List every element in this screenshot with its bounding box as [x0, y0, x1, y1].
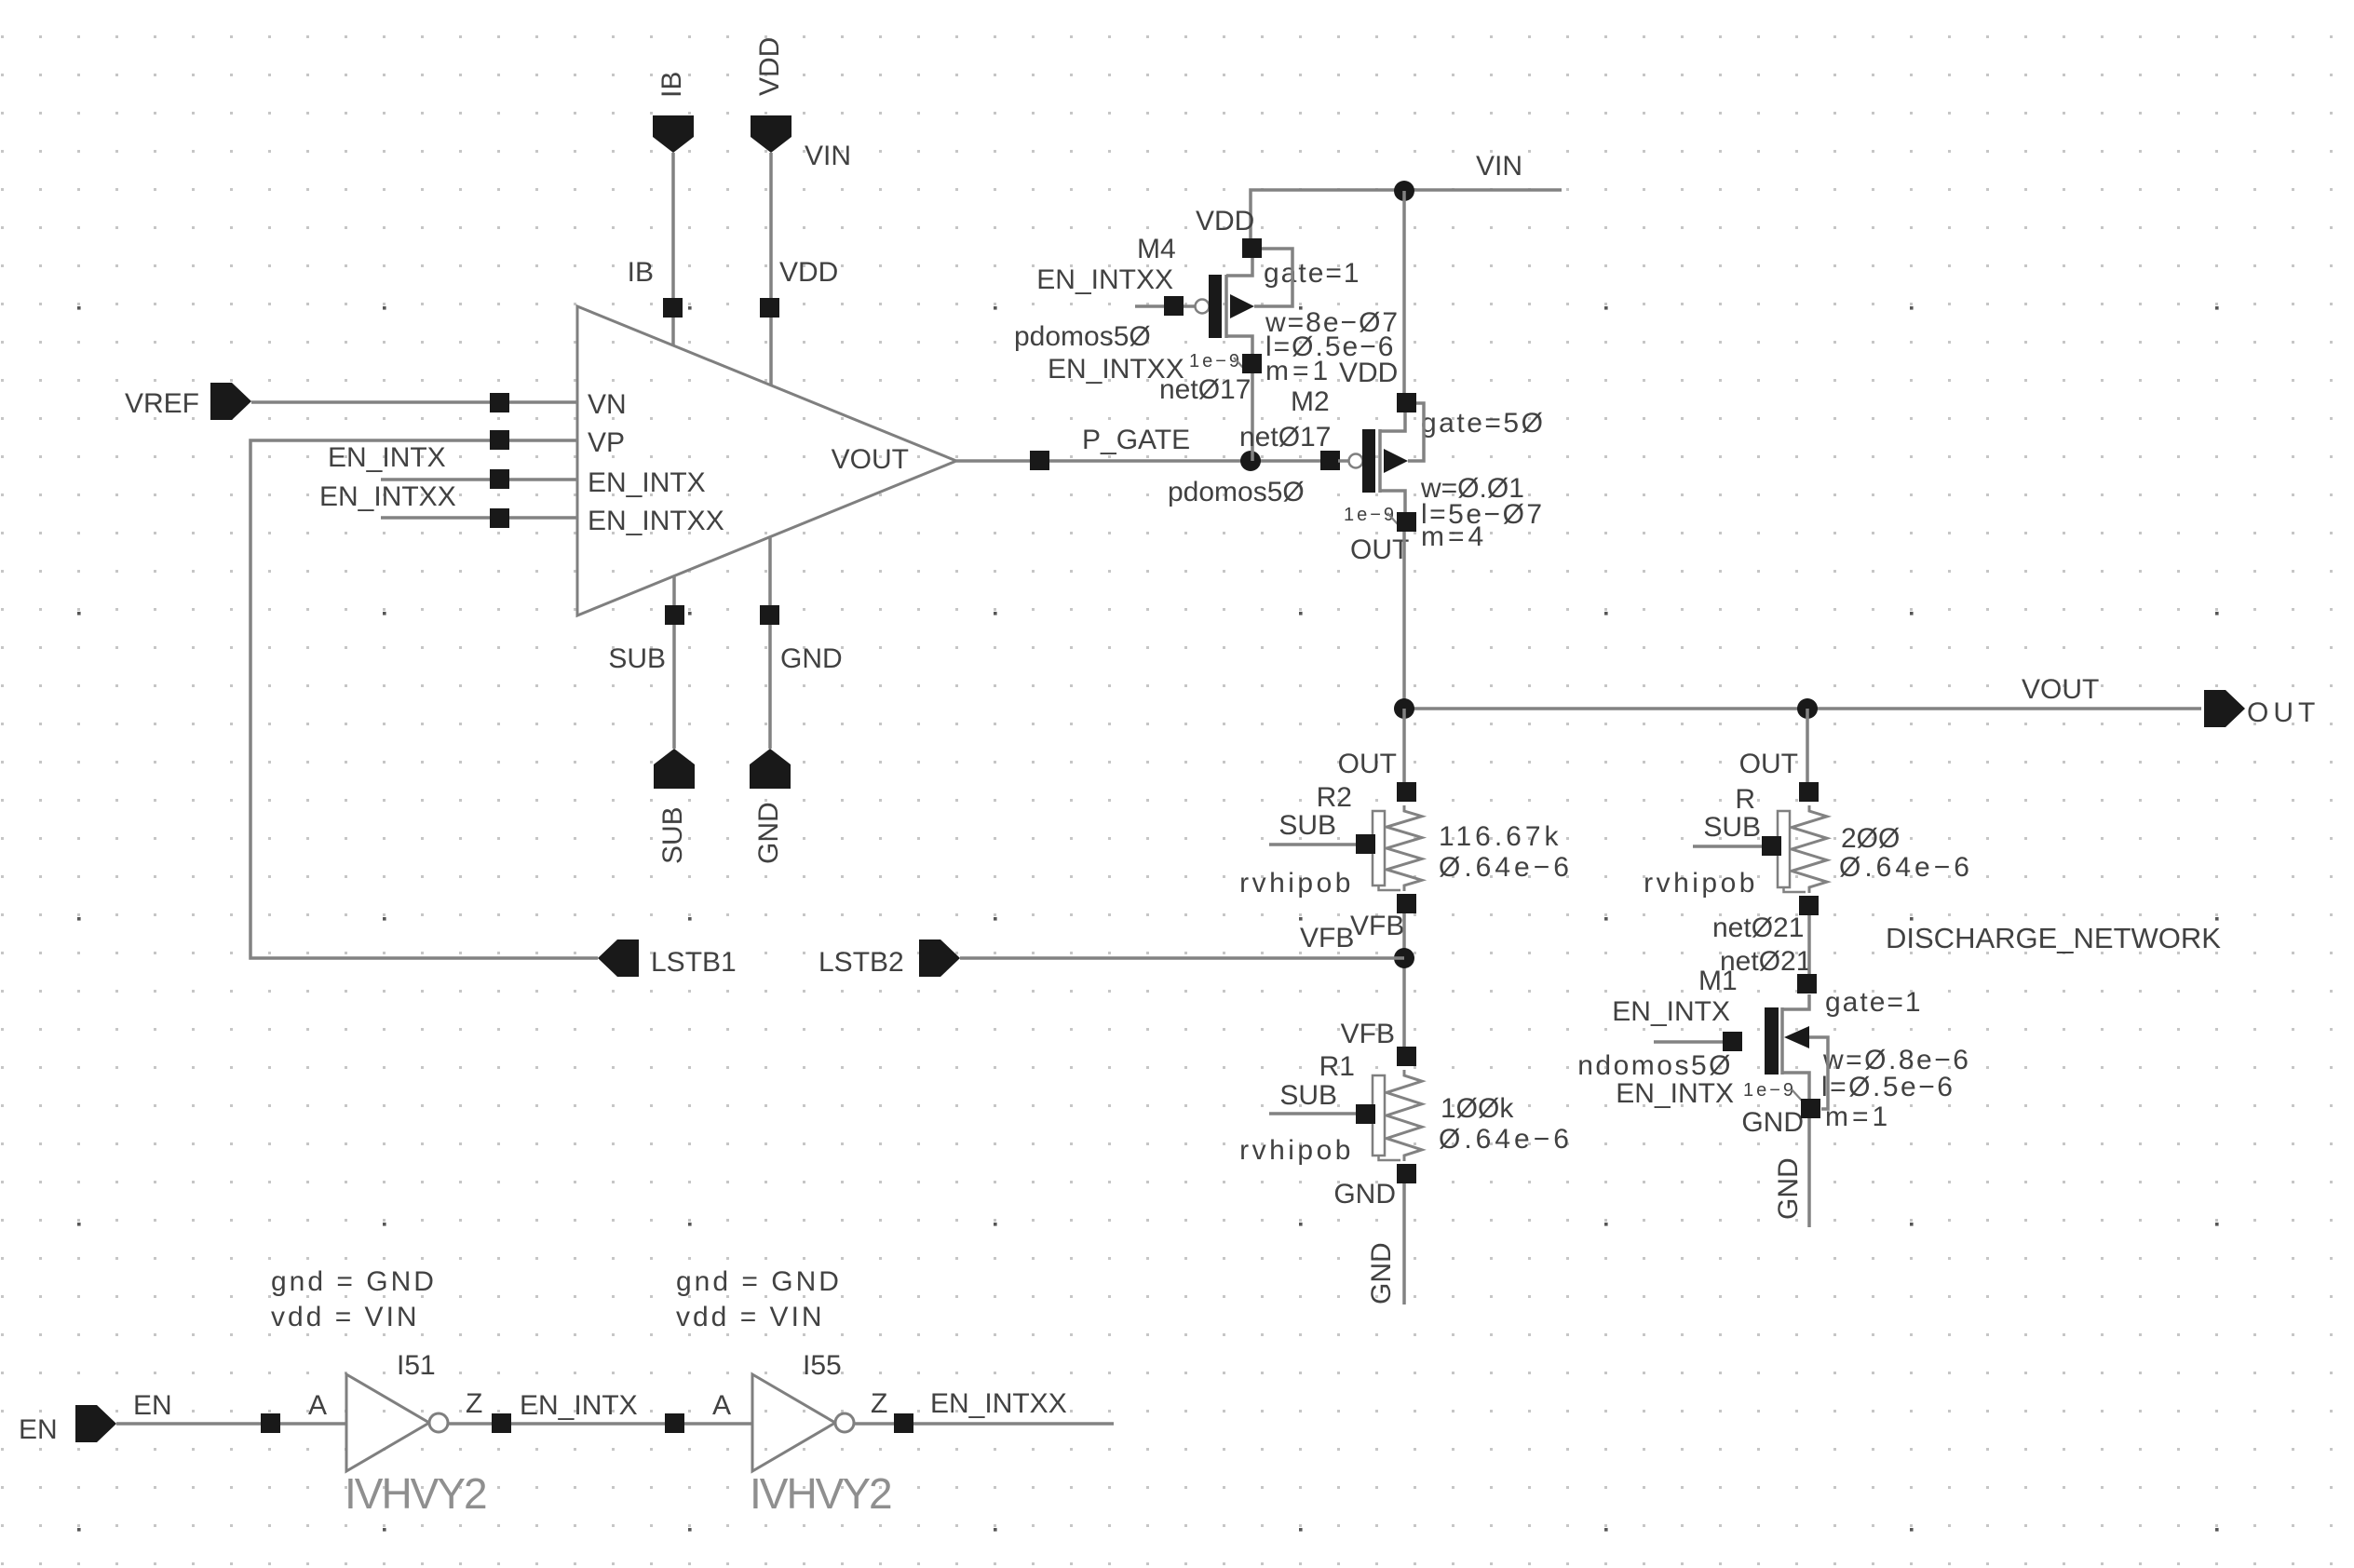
svg-text:SUB: SUB	[1703, 812, 1761, 843]
svg-text:EN_INTX: EN_INTX	[328, 442, 446, 473]
wire VIN horizontal	[1251, 190, 1562, 240]
svg-text:VDD: VDD	[1196, 206, 1254, 237]
wire R1 SUB stub	[1269, 1112, 1359, 1115]
svg-text:EN_INTX: EN_INTX	[520, 1390, 638, 1421]
svg-text:EN_INTX: EN_INTX	[1616, 1078, 1734, 1109]
wire OUT to R2	[1402, 709, 1406, 784]
svg-text:IB: IB	[656, 72, 687, 98]
wire IB	[671, 153, 675, 345]
svg-text:GND: GND	[1773, 1157, 1804, 1220]
svg-text:116.67k: 116.67k	[1439, 821, 1563, 852]
pin square M1 gate	[1723, 1032, 1742, 1051]
svg-text:DISCHARGE_NETWORK: DISCHARGE_NETWORK	[1886, 922, 2221, 954]
pin square SUB	[665, 605, 684, 625]
inverter I55	[752, 1374, 854, 1471]
pin square I55 A	[665, 1413, 684, 1433]
svg-text:EN_INTXX: EN_INTXX	[1036, 264, 1173, 295]
svg-text:IVHVY2: IVHVY2	[750, 1469, 891, 1518]
svg-text:gate=5Ø: gate=5Ø	[1421, 408, 1545, 439]
wire P_GATE	[956, 459, 1321, 463]
svg-text:GND: GND	[1366, 1242, 1397, 1304]
pin square M2 source VDD	[1397, 393, 1416, 412]
svg-text:netØ17: netØ17	[1159, 374, 1251, 405]
transistor M2 labels	[1168, 358, 1545, 565]
op-amp U0	[577, 306, 956, 615]
svg-text:M4: M4	[1137, 234, 1176, 264]
svg-text:m=1: m=1	[1265, 356, 1332, 386]
pin square I51 A	[261, 1413, 280, 1433]
transistor M4	[1196, 249, 1293, 369]
svg-text:OUT: OUT	[1350, 534, 1409, 565]
pin square I55 Z	[894, 1413, 913, 1433]
svg-text:VDD: VDD	[1339, 358, 1398, 388]
wire M1 gate stub	[1654, 1040, 1723, 1044]
port OUT	[2204, 690, 2320, 728]
svg-text:VDD: VDD	[779, 257, 838, 288]
svg-text:OUT: OUT	[1739, 749, 1798, 779]
svg-text:Ø.64e−6: Ø.64e−6	[1439, 1124, 1573, 1155]
junction VFB	[1394, 948, 1414, 968]
svg-text:SUB: SUB	[608, 643, 666, 674]
wire GND tail right	[1807, 1118, 1811, 1227]
port IB	[653, 72, 694, 153]
svg-text:m=1: m=1	[1825, 1102, 1891, 1132]
svg-text:VOUT: VOUT	[2022, 674, 2099, 705]
pin square R SUB	[1762, 836, 1781, 856]
wire EN_INTX	[448, 1422, 752, 1426]
svg-text:EN: EN	[133, 1390, 172, 1421]
wire EN_INTX stub	[381, 478, 577, 481]
pin square M1 source GND	[1801, 1099, 1820, 1118]
wire net017	[1251, 373, 1254, 461]
pin square VP	[490, 430, 509, 450]
svg-text:IB: IB	[628, 257, 654, 288]
svg-text:GND: GND	[1333, 1179, 1396, 1210]
wire GND tail left	[1402, 1183, 1406, 1304]
svg-text:gnd = GND: gnd = GND	[676, 1266, 842, 1297]
pin square R1 top	[1397, 1047, 1416, 1066]
svg-text:M2: M2	[1291, 386, 1330, 417]
transistor M1 labels	[1577, 966, 1970, 1138]
junction OUT left	[1394, 698, 1414, 719]
svg-text:1e−9: 1e−9	[1743, 1080, 1796, 1101]
junction VIN	[1394, 181, 1414, 201]
pin square R1 bottom GND	[1397, 1164, 1416, 1183]
svg-text:vdd = VIN: vdd = VIN	[271, 1302, 420, 1332]
pin square EN_INTX	[490, 469, 509, 489]
pin square M4 drain net017	[1242, 354, 1262, 373]
svg-text:l=Ø.5e−6: l=Ø.5e−6	[1821, 1072, 1955, 1102]
svg-text:rvhipob: rvhipob	[1239, 1135, 1354, 1166]
pin square R1 SUB	[1356, 1104, 1375, 1124]
port LSTB2	[818, 939, 960, 978]
transistor M4 labels	[1014, 206, 1400, 405]
port VDD	[751, 37, 791, 153]
svg-text:Z: Z	[871, 1388, 887, 1419]
pin square IB	[663, 298, 683, 318]
label VFB pair	[1300, 911, 1404, 953]
svg-text:vdd = VIN: vdd = VIN	[676, 1302, 825, 1332]
port VREF	[125, 383, 251, 420]
wire net021	[1807, 915, 1811, 975]
svg-text:gate=1: gate=1	[1264, 258, 1361, 289]
svg-text:ndomos5Ø: ndomos5Ø	[1577, 1050, 1733, 1081]
resistor R	[1644, 784, 1973, 899]
pin square M1 drain net021	[1797, 974, 1817, 994]
pin square M4 gate	[1164, 296, 1184, 316]
inverter I51	[346, 1374, 448, 1471]
port SUB	[654, 749, 695, 864]
svg-text:I51: I51	[397, 1350, 436, 1381]
wire VIN rail upper	[1402, 191, 1406, 395]
port EN	[19, 1405, 116, 1445]
svg-text:Z: Z	[466, 1388, 482, 1419]
pin square R2 top	[1397, 782, 1416, 802]
pin square GND	[760, 605, 779, 625]
wire EN	[116, 1422, 346, 1426]
pin square VOUT	[1030, 451, 1049, 470]
resistor R1	[1239, 1051, 1573, 1166]
wire SUB	[672, 576, 676, 749]
svg-text:EN_INTX: EN_INTX	[588, 467, 706, 498]
pin square VDD	[760, 298, 779, 318]
svg-text:GND: GND	[753, 802, 784, 864]
svg-text:I55: I55	[803, 1350, 842, 1381]
wire M4 gate stub	[1135, 304, 1196, 308]
svg-text:VREF: VREF	[125, 388, 199, 419]
wire VOUT horizontal	[1404, 707, 2201, 710]
svg-text:EN_INTXX: EN_INTXX	[319, 481, 456, 512]
svg-text:R2: R2	[1317, 782, 1352, 813]
wire VFB	[1402, 913, 1406, 1048]
svg-text:GND: GND	[780, 643, 843, 674]
port LSTB1	[598, 939, 737, 978]
port GND	[750, 749, 791, 864]
wire OUT rail	[1402, 532, 1406, 709]
label net021 pair	[1712, 912, 1811, 977]
svg-text:P_GATE: P_GATE	[1082, 425, 1190, 455]
svg-text:IVHVY2: IVHVY2	[345, 1469, 486, 1518]
svg-text:VDD: VDD	[754, 37, 785, 96]
svg-text:VP: VP	[588, 427, 625, 458]
pin square M2 drain OUT	[1397, 512, 1416, 532]
svg-text:Ø.64e−6: Ø.64e−6	[1439, 852, 1573, 883]
svg-text:VFB: VFB	[1350, 911, 1404, 941]
svg-text:M1: M1	[1698, 966, 1738, 996]
svg-text:SUB: SUB	[1279, 1080, 1337, 1111]
svg-text:A: A	[308, 1390, 327, 1421]
junction OUT right	[1797, 698, 1818, 719]
svg-text:EN_INTXX: EN_INTXX	[588, 506, 724, 536]
svg-text:gnd = GND: gnd = GND	[271, 1266, 437, 1297]
svg-text:SUB: SUB	[1278, 810, 1336, 841]
svg-text:LSTB1: LSTB1	[651, 947, 737, 978]
svg-text:Ø.64e−6: Ø.64e−6	[1839, 852, 1973, 883]
wire EN_INTXX out	[854, 1422, 1114, 1426]
pin square I51 Z	[492, 1413, 511, 1433]
svg-text:GND: GND	[1741, 1107, 1804, 1138]
pin square R top	[1799, 782, 1819, 802]
wire VP feedback	[250, 440, 598, 958]
wire VN (VREF to op-amp)	[251, 400, 577, 404]
junction P_GATE/net017	[1240, 451, 1261, 471]
svg-text:1ØØk: 1ØØk	[1441, 1093, 1514, 1124]
svg-text:pdomos5Ø: pdomos5Ø	[1014, 321, 1151, 352]
svg-text:1e−9: 1e−9	[1189, 351, 1242, 372]
wire LSTB2	[960, 956, 1404, 960]
svg-text:VOUT: VOUT	[832, 444, 909, 475]
svg-text:OUT: OUT	[1338, 749, 1397, 779]
wire OUT to R	[1806, 709, 1809, 784]
pin square R2 SUB	[1356, 834, 1375, 854]
svg-text:netØ21: netØ21	[1712, 912, 1804, 943]
svg-text:rvhipob: rvhipob	[1239, 868, 1354, 899]
wire R2 SUB stub	[1269, 843, 1359, 846]
wire VDD	[769, 153, 773, 385]
pin square M4 source VDD	[1242, 238, 1262, 258]
wire R SUB stub	[1693, 845, 1764, 848]
svg-text:VIN: VIN	[1476, 151, 1522, 182]
svg-text:VFB: VFB	[1300, 923, 1354, 953]
svg-text:VN: VN	[588, 389, 627, 420]
svg-text:A: A	[712, 1390, 731, 1421]
wire EN_INTXX stub	[381, 516, 577, 520]
wire GND	[768, 537, 772, 749]
svg-text:gate=1: gate=1	[1825, 987, 1923, 1018]
svg-text:EN_INTX: EN_INTX	[1612, 996, 1730, 1027]
svg-text:R: R	[1735, 784, 1755, 815]
svg-text:rvhipob: rvhipob	[1644, 868, 1758, 899]
svg-text:LSTB2: LSTB2	[818, 947, 904, 978]
svg-text:OUT: OUT	[2247, 697, 2320, 728]
svg-text:R1: R1	[1319, 1051, 1355, 1082]
svg-text:VFB: VFB	[1341, 1019, 1395, 1049]
svg-text:SUB: SUB	[657, 806, 688, 864]
svg-text:netØ17: netØ17	[1239, 422, 1331, 453]
major grid dots	[77, 306, 2219, 1532]
svg-text:pdomos5Ø: pdomos5Ø	[1168, 477, 1305, 507]
svg-text:EN: EN	[19, 1414, 58, 1445]
svg-text:VIN: VIN	[805, 141, 851, 171]
transistor M2	[1338, 403, 1424, 524]
pin square EN_INTXX	[490, 508, 509, 528]
resistor R2	[1239, 782, 1573, 899]
pin square VN	[490, 393, 509, 412]
svg-text:m=4: m=4	[1421, 521, 1487, 552]
transistor M1	[1765, 994, 1828, 1109]
pin square R bottom net021	[1799, 896, 1819, 915]
pin square R2 bottom	[1397, 894, 1416, 913]
svg-text:EN_INTXX: EN_INTXX	[930, 1388, 1067, 1419]
svg-text:2ØØ: 2ØØ	[1841, 823, 1900, 854]
pin square M2 gate	[1320, 451, 1340, 470]
